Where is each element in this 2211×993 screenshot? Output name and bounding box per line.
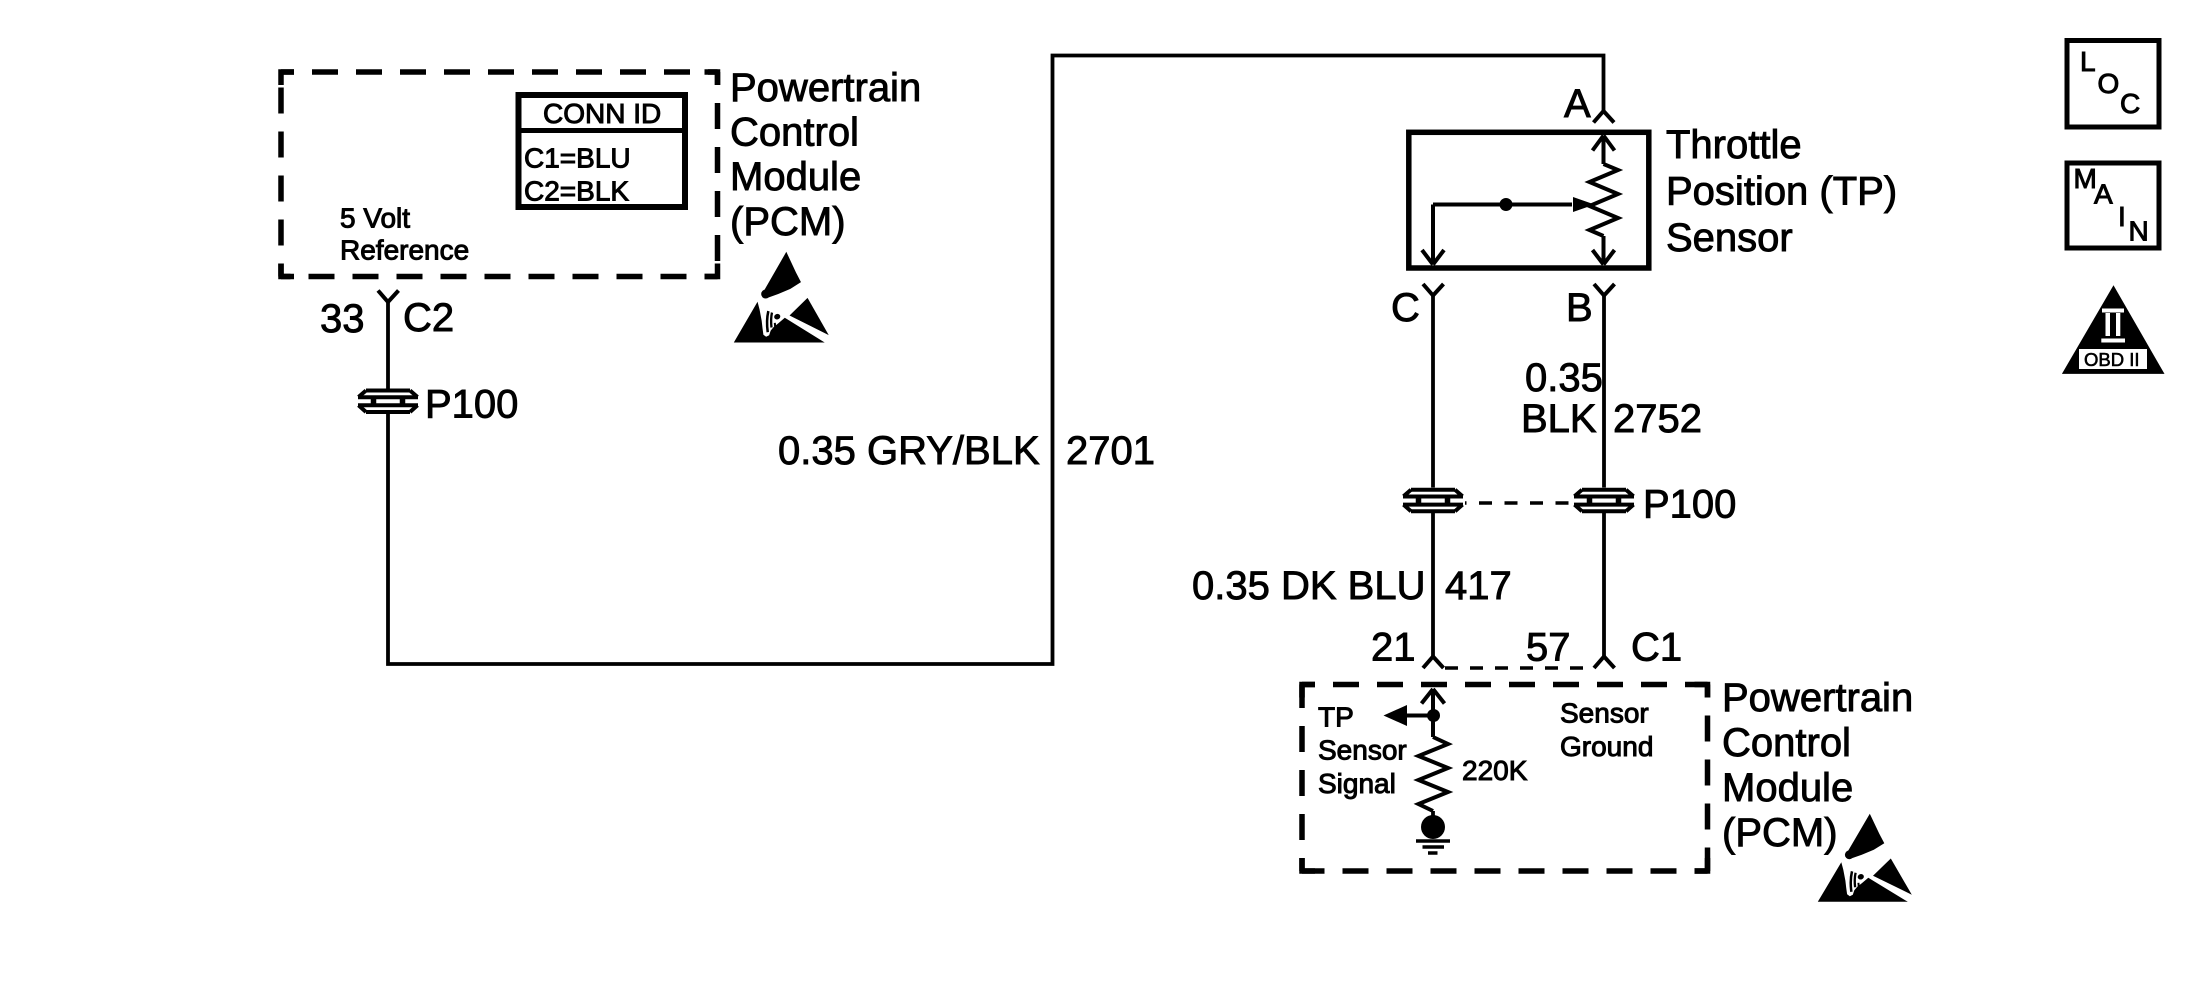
PCM top box corner dashes [281,72,718,277]
svg-text:Module: Module [730,155,861,199]
PCM module box (top, dashed) [281,72,718,277]
svg-text:CONN ID: CONN ID [543,98,661,129]
LOC legend box [2067,41,2159,128]
PCM module box (bottom, dashed) [1302,685,1708,872]
svg-text:N: N [2129,215,2149,246]
MAIN legend box [2067,163,2159,248]
svg-text:C: C [1391,286,1420,330]
svg-text:57: 57 [1526,626,1571,670]
TP sensor signal tap line [1407,714,1433,718]
svg-text:0.35 DK BLU: 0.35 DK BLU [1192,564,1425,608]
svg-text:A: A [2094,178,2113,209]
wiper line [1433,203,1572,207]
terminal chevron at A [1594,111,1615,123]
CONN ID table box [519,95,686,207]
svg-text:Sensor: Sensor [1666,216,1793,260]
ESD symbol top [734,252,829,343]
svg-text:BLK: BLK [1521,397,1597,441]
wiper drop to C [1422,205,1444,265]
svg-text:C: C [2120,88,2140,119]
potentiometer resistive element [1590,164,1619,236]
svg-text:TP: TP [1318,701,1354,732]
svg-text:0.35 GRY/BLK: 0.35 GRY/BLK [778,429,1040,473]
wiper arrowhead [1573,197,1595,212]
svg-text:(PCM): (PCM) [730,200,846,244]
svg-text:L: L [2080,46,2096,77]
svg-text:Module: Module [1722,766,1853,810]
wire: long 5V reference run, down right and up to TP sensor A [388,56,1604,665]
svg-text:2701: 2701 [1066,429,1155,473]
wire resistor to ground [1431,811,1435,816]
TP sensor signal arrowhead [1384,705,1408,726]
svg-text:(PCM): (PCM) [1722,811,1838,855]
svg-text:220K: 220K [1462,755,1528,786]
inline connector P100 (left) [358,391,418,413]
arrow out of potentiometer bottom [1593,236,1615,265]
svg-text:C1: C1 [1631,626,1682,670]
svg-text:Powertrain: Powertrain [1722,676,1913,720]
OBD II pillar glyph [2079,309,2147,370]
inline connector P100 (mid left) [1403,490,1463,512]
svg-text:Position (TP): Position (TP) [1666,169,1897,213]
svg-text:Sensor: Sensor [1560,697,1649,728]
wire: TP signal C down to P100 [1431,296,1435,488]
wire: BLK below P100 [1602,513,1606,657]
CONN ID table divider [516,128,689,133]
arrow into PCM from 21 [1422,689,1445,737]
svg-text:21: 21 [1371,626,1416,670]
svg-text:O: O [2098,68,2120,99]
wire: DK BLU below P100 [1431,513,1435,657]
resistor 220K [1419,737,1449,811]
dashed tie between P100 halves [1465,501,1572,505]
svg-text:Signal: Signal [1318,768,1396,799]
svg-text:P100: P100 [425,383,518,427]
terminal chevron at 57 [1594,657,1615,669]
svg-text:5 Volt: 5 Volt [340,202,410,233]
terminal chevron at 21 [1423,657,1444,669]
svg-text:33: 33 [320,297,365,341]
svg-text:2752: 2752 [1613,397,1702,441]
svg-text:C2: C2 [403,296,454,340]
svg-text:C1=BLU: C1=BLU [524,142,631,173]
svg-text:B: B [1566,286,1593,330]
svg-text:0.35: 0.35 [1525,356,1603,400]
svg-text:Throttle: Throttle [1666,123,1802,167]
junction dot at signal tap [1427,709,1440,722]
svg-text:417: 417 [1445,564,1512,608]
arrow into potentiometer top [1593,136,1615,165]
terminal chevron at 33/C2 [378,291,399,303]
svg-text:A: A [1564,82,1591,126]
Throttle Position Sensor box [1409,132,1649,268]
svg-text:OBD II: OBD II [2084,349,2140,370]
terminal chevron at B [1594,284,1615,296]
PCM bottom box corner dashes [1302,685,1708,872]
svg-text:P100: P100 [1643,483,1736,527]
svg-text:Reference: Reference [340,234,469,265]
inline connector P100 (mid right) [1574,490,1634,512]
OBD II triangle [2062,285,2165,374]
ESD symbol bottom [1818,814,1912,902]
ground dot [1421,815,1445,839]
dashed connector face line 21-57 [1445,666,1592,670]
svg-text:Sensor: Sensor [1318,735,1407,766]
svg-text:Ground: Ground [1560,731,1653,762]
svg-text:Control: Control [730,111,859,155]
svg-text:Powertrain: Powertrain [730,66,921,110]
ground symbol [1416,841,1450,853]
wire: sensor ground B down to P100 [1602,296,1606,488]
terminal chevron at C [1423,284,1444,296]
svg-text:I: I [2118,201,2126,232]
wiper junction dot [1500,198,1513,211]
wire: 5V ref down from C2 to P100 [386,302,390,389]
svg-text:C2=BLK: C2=BLK [524,175,629,206]
svg-text:Control: Control [1722,721,1851,765]
